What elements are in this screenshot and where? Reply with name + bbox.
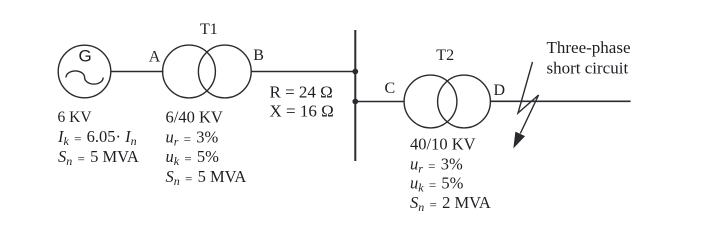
svg-text:6/40 KV: 6/40 KV (166, 108, 223, 127)
svg-text:Ik = 6.05· In: Ik = 6.05· In (57, 127, 137, 148)
svg-text:D: D (494, 82, 506, 99)
svg-text:uk = 5%: uk = 5% (410, 174, 464, 195)
svg-text:R = 24 Ω: R = 24 Ω (270, 83, 333, 102)
busbar (354, 30, 356, 161)
svg-text:Sn = 2 MVA: Sn = 2 MVA (410, 193, 491, 214)
short-circuit lightning arrow (518, 62, 539, 134)
transformer T2 (404, 75, 490, 128)
wire T1 to busbar (251, 71, 355, 73)
svg-text:C: C (385, 80, 396, 97)
generator G1 (58, 45, 111, 98)
svg-text:short circuit: short circuit (547, 59, 629, 78)
svg-text:B: B (253, 47, 264, 64)
svg-text:X = 16 Ω: X = 16 Ω (270, 102, 334, 121)
short-circuit arrowhead (514, 132, 524, 147)
junction dot upper (352, 69, 358, 75)
wire T2 to short-circuit point (490, 100, 630, 102)
svg-text:ur = 3%: ur = 3% (410, 155, 463, 176)
transformer T1 (163, 45, 252, 98)
junction dot lower (352, 99, 358, 105)
svg-text:Three-phase: Three-phase (547, 38, 631, 57)
svg-text:T2: T2 (436, 47, 454, 64)
wire generator to transformer T1 (111, 71, 164, 73)
svg-text:G: G (79, 47, 92, 66)
svg-text:6 KV: 6 KV (58, 109, 93, 126)
svg-text:Sn = 5 MVA: Sn = 5 MVA (166, 167, 247, 188)
svg-text:40/10 KV: 40/10 KV (410, 135, 476, 154)
svg-text:ur = 3%: ur = 3% (166, 128, 219, 149)
svg-text:uk = 5%: uk = 5% (166, 147, 220, 168)
wire busbar to transformer T2 (355, 101, 404, 103)
svg-text:T1: T1 (200, 21, 218, 38)
svg-text:A: A (149, 48, 161, 65)
svg-text:Sn = 5 MVA: Sn = 5 MVA (58, 147, 139, 168)
